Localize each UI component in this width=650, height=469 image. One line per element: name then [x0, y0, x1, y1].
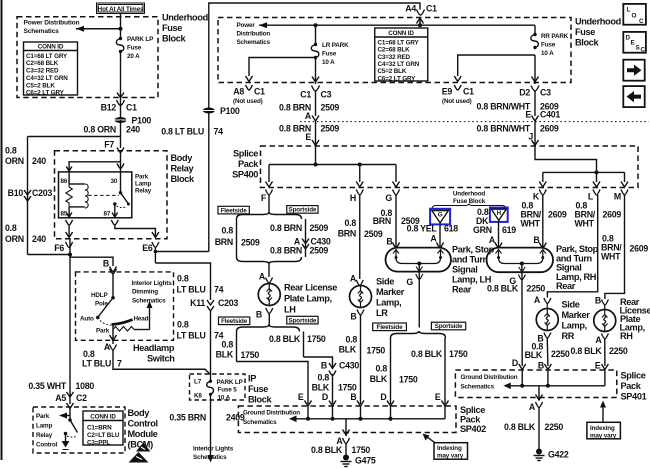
- label Body Control Module (BCM): [128, 408, 158, 450]
- wire sportside to C430: [304, 357, 333, 362]
- arrow continuation left (SP401 bus): [503, 383, 511, 390]
- connector arrow A8 exit: [246, 76, 253, 82]
- wire 0.8 BRN 2509 lower to SP400: [315, 122, 317, 146]
- fork E6: [152, 242, 159, 248]
- label Park Lamp Relay Control: [36, 413, 58, 449]
- svg-text:E: E: [631, 40, 635, 47]
- svg-text:Fuse: Fuse: [322, 51, 337, 58]
- arrow to Power Distribution Schematics: [76, 26, 121, 32]
- label B12 | C1: [101, 103, 137, 113]
- connector arrow D into SP402: [387, 401, 394, 407]
- svg-text:Lamp, LH: Lamp, LH: [452, 275, 492, 285]
- wire fleetside 0.8 BLK 1750: [236, 332, 238, 362]
- connector arrow B into headlamp switch: [110, 269, 117, 275]
- svg-text:Marker: Marker: [562, 310, 591, 320]
- fork below SP401: [536, 402, 543, 408]
- fork at park LH lamp A: [437, 243, 444, 248]
- fork + label E9 C1 (Not used): [442, 85, 474, 105]
- svg-text:Ground Distribution: Ground Distribution: [243, 410, 300, 417]
- svg-text:C2=68 BLK: C2=68 BLK: [26, 60, 59, 67]
- svg-text:(Not used): (Not used): [233, 98, 263, 105]
- svg-text:A: A: [305, 111, 312, 121]
- svg-text:0.8: 0.8: [318, 373, 330, 383]
- splice brace merge into lamp: [237, 257, 302, 264]
- svg-text:Fuse: Fuse: [162, 23, 182, 33]
- label 0.8 ORN 240 (left wire upper): [5, 146, 46, 167]
- label Interior Lights Dimming Schematics: [132, 280, 173, 304]
- label box Sportside 3: [431, 322, 465, 330]
- svg-text:2609: 2609: [548, 210, 567, 220]
- svg-text:Distribution: Distribution: [237, 31, 271, 38]
- svg-text:LH: LH: [284, 305, 296, 315]
- svg-text:may vary: may vary: [437, 453, 464, 460]
- svg-text:2509: 2509: [310, 246, 329, 256]
- svg-text:1750: 1750: [241, 350, 260, 360]
- label Splice Pack SP400: [232, 149, 259, 180]
- svg-text:0.8: 0.8: [5, 146, 17, 156]
- lamp Rear License Plate Lamp RH: [594, 297, 650, 341]
- svg-text:RR: RR: [562, 331, 575, 341]
- wire D entry: [521, 370, 523, 386]
- svg-text:1750: 1750: [367, 346, 386, 356]
- wire 0.8 YEL 618: [439, 224, 441, 247]
- svg-text:S: S: [636, 45, 640, 52]
- svg-text:Module: Module: [128, 429, 158, 439]
- labels F H G K L M: [261, 192, 621, 204]
- svg-text:Power: Power: [237, 22, 256, 29]
- svg-text:J: J: [528, 132, 533, 142]
- svg-text:Fuse: Fuse: [541, 42, 556, 49]
- svg-text:619: 619: [502, 225, 516, 235]
- svg-text:Head: Head: [134, 316, 149, 323]
- wire F drop: [268, 165, 270, 183]
- svg-text:2609: 2609: [603, 210, 622, 220]
- wire K drop: [542, 172, 544, 182]
- svg-text:Plate Lamp,: Plate Lamp,: [284, 294, 332, 304]
- wire A down 0.8 BLK 2250 to SP401 E: [604, 339, 606, 366]
- labels L7 K8: [194, 379, 202, 400]
- svg-text:Lamp,: Lamp,: [376, 298, 401, 308]
- wire G down 0.8 BRN 2509: [395, 195, 397, 248]
- svg-text:H: H: [497, 210, 502, 217]
- svg-text:C6=2 LT GRY: C6=2 LT GRY: [378, 75, 417, 82]
- wire 0.8 DK GRN 619: [498, 222, 500, 248]
- connector arrows K,L,M at box bottom: [539, 182, 546, 188]
- wire F7 to relay 30: [120, 153, 122, 172]
- svg-text:BLK: BLK: [370, 374, 388, 384]
- svg-text:B: B: [386, 237, 392, 247]
- svg-text:BLK: BLK: [312, 383, 330, 393]
- svg-text:2250: 2250: [545, 422, 564, 432]
- svg-text:1750: 1750: [352, 445, 371, 455]
- arrow to Interior Lights Schematics: [207, 455, 213, 463]
- svg-text:C1: C1: [300, 90, 311, 100]
- svg-text:2609: 2609: [630, 244, 649, 254]
- svg-text:PARK LP: PARK LP: [127, 36, 153, 43]
- arrow continuation left (SP402 bus): [289, 416, 297, 423]
- wire LR fuse down to C1/C3: [315, 58, 317, 85]
- fuse PARK LP Fuse 5 10A: [207, 379, 243, 401]
- svg-text:0.8: 0.8: [177, 274, 189, 284]
- wire label 0.8 LT BLU 7: [82, 349, 122, 369]
- svg-text:Fleetside: Fleetside: [377, 324, 404, 331]
- svg-text:K8: K8: [194, 393, 202, 400]
- label Power Distribution Schematics (middle): [237, 22, 271, 46]
- svg-text:Relay: Relay: [135, 188, 152, 195]
- label Underhood Fuse Block (mini, over triangles): [453, 191, 486, 206]
- relay switch 30-87: [88, 172, 130, 218]
- svg-text:Splice: Splice: [621, 371, 646, 381]
- connector C430 arrow: [321, 361, 359, 376]
- wire 0.8 BLK 1750 to G475: [345, 444, 347, 456]
- wire relay coil feed bus: [69, 162, 120, 172]
- label 0.8 LT BLU 74 (upper): [177, 274, 224, 295]
- svg-text:C2: C2: [76, 393, 87, 403]
- svg-text:H: H: [350, 193, 356, 203]
- wire top feed from P100 column to A4: [209, 3, 420, 111]
- svg-text:LT BLU: LT BLU: [177, 285, 206, 295]
- svg-text:Rear: Rear: [556, 281, 576, 291]
- button LOC: [623, 4, 646, 25]
- wire 0.8 BLK 1750 to SP402 D: [332, 374, 334, 404]
- BCM dashed box: [33, 407, 125, 453]
- svg-text:C: C: [641, 47, 646, 54]
- svg-text:HDLP: HDLP: [91, 292, 108, 299]
- wire M down 0.8 BRN/WHT 2609: [605, 195, 625, 299]
- svg-text:PARK LP: PARK LP: [217, 379, 243, 386]
- connector arrow D into SP402: [329, 401, 336, 407]
- connector arrow at box bottom (LR): [312, 77, 319, 83]
- lamp Side Marker RR: [536, 300, 590, 342]
- svg-text:7: 7: [117, 359, 122, 369]
- svg-text:G422: G422: [548, 450, 569, 460]
- svg-text:0.8: 0.8: [5, 223, 17, 233]
- wire G drop: [395, 165, 397, 183]
- svg-text:A: A: [595, 335, 602, 345]
- wire 0.8 BRN 2509 upper: [315, 91, 317, 116]
- fork at side marker RR A: [544, 298, 551, 304]
- wire LR fuse branch to A8 (not used): [249, 58, 316, 77]
- node: junction at fuse feed: [119, 27, 123, 31]
- svg-text:Schematics: Schematics: [193, 454, 227, 461]
- connector arrow out of SP402: [343, 430, 350, 436]
- svg-text:(Not used): (Not used): [442, 98, 472, 105]
- wire 87 to E6: [115, 225, 156, 237]
- svg-text:Schematics: Schematics: [237, 39, 271, 46]
- connector arrow out of SP401: [536, 395, 543, 401]
- wire B down: [268, 314, 270, 327]
- svg-text:G: G: [438, 212, 443, 219]
- label Park Lamp Relay: [135, 174, 152, 195]
- svg-text:Schematics: Schematics: [243, 419, 277, 426]
- dotted travel arc Auto to Park: [100, 321, 111, 326]
- wire M drop: [624, 172, 626, 182]
- fork at lamp B: [266, 308, 273, 314]
- wire bus to LR fuse: [315, 25, 317, 44]
- wire park output: [112, 330, 114, 345]
- svg-text:Fuse: Fuse: [575, 27, 595, 37]
- wire K11 to L7: [210, 311, 212, 381]
- svg-text:Signal: Signal: [452, 265, 477, 275]
- svg-text:L: L: [627, 7, 631, 14]
- svg-text:Block: Block: [575, 38, 600, 48]
- svg-text:IP: IP: [248, 374, 256, 384]
- svg-text:C6=2 LT GRY: C6=2 LT GRY: [26, 89, 65, 96]
- svg-text:Pack: Pack: [460, 415, 481, 425]
- wire label 0.8 ORN 240: [84, 125, 141, 135]
- fork at B: [110, 267, 117, 272]
- connector arrow E6: [152, 232, 159, 238]
- wire fleetside to SP402 E: [237, 362, 309, 405]
- wire H down 0.8 BRN 2509: [359, 195, 361, 279]
- wire F6 junction with ORN wire: [28, 254, 71, 256]
- svg-text:Interior Lights: Interior Lights: [193, 446, 234, 453]
- connector A C430 on sportside branch: [294, 237, 331, 250]
- svg-text:74: 74: [214, 331, 224, 341]
- svg-text:BRN: BRN: [373, 216, 391, 226]
- fork at lamp A: [266, 278, 273, 284]
- svg-text:618: 618: [444, 224, 458, 234]
- svg-text:0.8: 0.8: [83, 349, 95, 359]
- label Underhood Fuse Block (right): [575, 17, 621, 48]
- triangle connector G (blue): [430, 209, 450, 225]
- svg-text:0.8 BRN: 0.8 BRN: [270, 246, 302, 256]
- fork below SP402: [343, 438, 350, 444]
- splice pack SP402 dashed box: [238, 406, 456, 433]
- svg-text:Underhood: Underhood: [453, 191, 486, 198]
- svg-text:B: B: [256, 310, 262, 320]
- connector arrow at box exit: [117, 93, 124, 98]
- svg-text:0.8: 0.8: [222, 340, 234, 350]
- svg-text:2509: 2509: [241, 238, 260, 248]
- wire H drop: [359, 165, 361, 183]
- svg-text:74: 74: [214, 127, 224, 137]
- svg-text:Body: Body: [128, 408, 151, 418]
- svg-text:M: M: [614, 192, 621, 202]
- connector arrow E9 exit: [454, 76, 461, 82]
- lamp Park Stop Turn RH rear (stadium): [487, 244, 599, 291]
- connector arrow E into SP401: [601, 364, 608, 370]
- svg-text:0.8: 0.8: [346, 335, 358, 345]
- ground G422: [534, 449, 569, 461]
- connector arrow E into SP400: [312, 140, 319, 146]
- ESD warning triangles: [129, 443, 151, 463]
- svg-text:2609: 2609: [540, 124, 559, 134]
- svg-text:1750: 1750: [449, 349, 468, 359]
- wire fleetside 0.8 BRN 2509: [236, 219, 238, 257]
- svg-text:C5=2 BLK: C5=2 BLK: [26, 82, 55, 89]
- svg-text:may vary: may vary: [590, 432, 617, 439]
- svg-text:E: E: [595, 361, 601, 371]
- fork at rear license RH A: [601, 334, 608, 340]
- svg-text:E: E: [305, 132, 311, 142]
- svg-text:C4=32 LT GRN: C4=32 LT GRN: [378, 61, 420, 68]
- body relay block dashed box: [55, 151, 168, 239]
- button DESC: [623, 32, 646, 54]
- triangle connector H (blue): [490, 208, 508, 222]
- svg-text:O: O: [632, 13, 637, 20]
- svg-text:C1: C1: [126, 103, 137, 113]
- svg-text:0.8 LT BLU: 0.8 LT BLU: [161, 127, 204, 137]
- wire E entry: [604, 370, 606, 386]
- label box Sportside 2: [287, 316, 318, 324]
- svg-text:CONN ID: CONN ID: [388, 30, 414, 37]
- svg-text:0.35 BRN: 0.35 BRN: [169, 413, 206, 423]
- svg-text:G475: G475: [355, 456, 376, 466]
- wire label 0.8 BRN 2509 below C430: [270, 246, 328, 256]
- svg-text:1750: 1750: [338, 383, 357, 393]
- fork below relay 85: [66, 220, 73, 225]
- wire SP402 output drop: [345, 419, 347, 436]
- svg-text:C1: C1: [426, 4, 437, 14]
- wire 0.8 BRN/WHT 2609 upper: [534, 91, 536, 116]
- label IP Fuse Block: [248, 374, 273, 405]
- wire B down 0.8 BLK 1750 to SP402: [360, 315, 362, 404]
- svg-text:Power Distribution: Power Distribution: [24, 20, 80, 27]
- label box Fleetside 2: [219, 317, 250, 325]
- svg-text:D: D: [322, 392, 328, 402]
- svg-text:Hot At All Times: Hot At All Times: [98, 6, 144, 13]
- svg-text:F7: F7: [104, 140, 114, 150]
- wire into BCM + arrow left: [69, 408, 71, 420]
- splice brace split B: [237, 325, 300, 332]
- svg-text:Relay: Relay: [36, 432, 53, 439]
- connector arrow J into SP400: [532, 140, 539, 146]
- fork at rear license RH B: [601, 300, 608, 306]
- svg-text:A: A: [350, 274, 357, 284]
- svg-text:0.8: 0.8: [345, 218, 357, 228]
- svg-text:0.8 BLK: 0.8 BLK: [504, 422, 536, 432]
- svg-text:0.35 WHT: 0.35 WHT: [28, 381, 66, 391]
- wire fuse to B12 exit: [120, 52, 122, 120]
- connector arrow at box bottom (RR): [532, 77, 539, 83]
- svg-text:D2: D2: [519, 88, 530, 98]
- arrow to Power Distribution Schematics (middle): [259, 22, 267, 28]
- wire F6 to BCM 0.35 WHT 1080: [69, 255, 71, 405]
- page left border: [1, 0, 3, 460]
- svg-text:0.8: 0.8: [222, 226, 234, 236]
- wire label 0.8 LT BLU 74 (riser): [161, 127, 223, 137]
- thick contact arc Park-Head: [112, 320, 133, 325]
- wire riser to P100: [208, 111, 210, 252]
- connector arrow A into C401 plane: [312, 116, 319, 122]
- wire SP400 bus 2: [543, 171, 625, 173]
- wire E6 to IP fuse branch: [155, 263, 210, 300]
- fork at relay 30: [117, 164, 124, 169]
- label box Fleetside 1: [218, 206, 249, 214]
- wire 85 to F6: [68, 225, 70, 237]
- svg-text:C3: C3: [540, 88, 551, 98]
- connector fork B12/C1: [117, 100, 125, 106]
- svg-text:Control: Control: [36, 442, 58, 449]
- svg-text:A: A: [529, 402, 536, 412]
- fork A: [110, 345, 117, 351]
- svg-text:CONN ID: CONN ID: [90, 414, 116, 421]
- node junction A4 feed: [418, 23, 422, 27]
- label 0.8 ORN 240 (left wire lower): [5, 223, 46, 244]
- svg-text:Control: Control: [128, 419, 158, 429]
- node junctions on bus 1: [314, 163, 318, 167]
- node junction on bus 2: [595, 170, 599, 174]
- wire 0.8 BLK 2250 to G422: [538, 408, 540, 451]
- svg-text:Sportside: Sportside: [289, 207, 317, 214]
- svg-text:2250: 2250: [551, 349, 570, 359]
- fork at park RH lamp B: [539, 243, 546, 248]
- svg-text:Underhood: Underhood: [162, 13, 208, 23]
- svg-text:Park: Park: [96, 328, 110, 335]
- svg-text:2509: 2509: [321, 124, 340, 134]
- fork at side marker LR B: [357, 310, 364, 316]
- relay coil (resistor + winding): [66, 172, 88, 218]
- svg-text:0.8 BLK: 0.8 BLK: [487, 284, 519, 294]
- CONN ID table (BCM): [83, 411, 123, 447]
- connector K11 C203: [190, 298, 238, 311]
- svg-text:L: L: [588, 192, 594, 202]
- svg-text:10 A: 10 A: [322, 59, 335, 66]
- switch arm to Auto: [98, 298, 113, 317]
- fork at park LH lamp B: [393, 243, 400, 248]
- svg-text:BRN: BRN: [215, 237, 233, 247]
- svg-text:10 A: 10 A: [218, 394, 231, 401]
- wire A to IP fuse L7: [113, 350, 211, 375]
- svg-text:10 A: 10 A: [541, 50, 554, 57]
- fuse RR PARK 10A: [531, 33, 569, 57]
- button left arrow: [623, 86, 644, 107]
- grommet P100: [115, 116, 152, 126]
- svg-text:Indexing: Indexing: [437, 445, 462, 452]
- svg-text:87: 87: [104, 211, 111, 218]
- wire B entry: [547, 370, 549, 386]
- wire F6 continuation: [69, 238, 71, 255]
- wire to rear license LH: [268, 264, 270, 277]
- wire 0.8 ORN down left side: [27, 137, 29, 255]
- ground inside BCM: [62, 441, 70, 448]
- svg-text:C3=32 RED: C3=32 RED: [378, 54, 411, 61]
- wire SP400 bus 1: [269, 164, 396, 166]
- svg-text:CONN ID: CONN ID: [38, 44, 64, 51]
- svg-text:Interior Lights: Interior Lights: [132, 280, 173, 287]
- svg-text:GRN: GRN: [473, 225, 492, 235]
- svg-text:Rear License: Rear License: [284, 283, 337, 293]
- node junctions SP401: [520, 384, 524, 388]
- svg-text:A: A: [104, 342, 111, 352]
- park terminal + resistor to dimming: [113, 301, 153, 331]
- svg-text:BRN: BRN: [338, 229, 356, 239]
- svg-text:Splice: Splice: [460, 405, 485, 415]
- svg-text:B10: B10: [8, 188, 24, 198]
- svg-text:0.8 BRN/WHT: 0.8 BRN/WHT: [477, 102, 531, 112]
- svg-text:2509: 2509: [364, 229, 383, 239]
- svg-text:E6: E6: [142, 243, 153, 253]
- headlamp switch dashed box: [76, 272, 174, 340]
- svg-text:Schematics: Schematics: [461, 384, 495, 391]
- wire E6 down: [154, 248, 156, 264]
- connector arrow B into SP401: [544, 364, 551, 370]
- underhood fuse block (main) dashed box: [218, 18, 571, 83]
- fork below relay 87: [111, 220, 118, 225]
- wire sportside 0.8 BLK 1750: [303, 332, 305, 358]
- svg-text:F6: F6: [54, 243, 64, 253]
- svg-text:C2=68 BLK: C2=68 BLK: [378, 47, 411, 54]
- svg-text:A: A: [534, 295, 541, 305]
- svg-text:ORN: ORN: [5, 156, 24, 166]
- svg-text:E: E: [298, 392, 304, 402]
- svg-text:Lamp: Lamp: [36, 423, 52, 430]
- svg-text:SP401: SP401: [621, 392, 647, 402]
- svg-text:0.8 BRN/WHT: 0.8 BRN/WHT: [477, 124, 531, 134]
- svg-text:B: B: [321, 361, 327, 371]
- splice pack SP400 dashed box: [261, 146, 639, 188]
